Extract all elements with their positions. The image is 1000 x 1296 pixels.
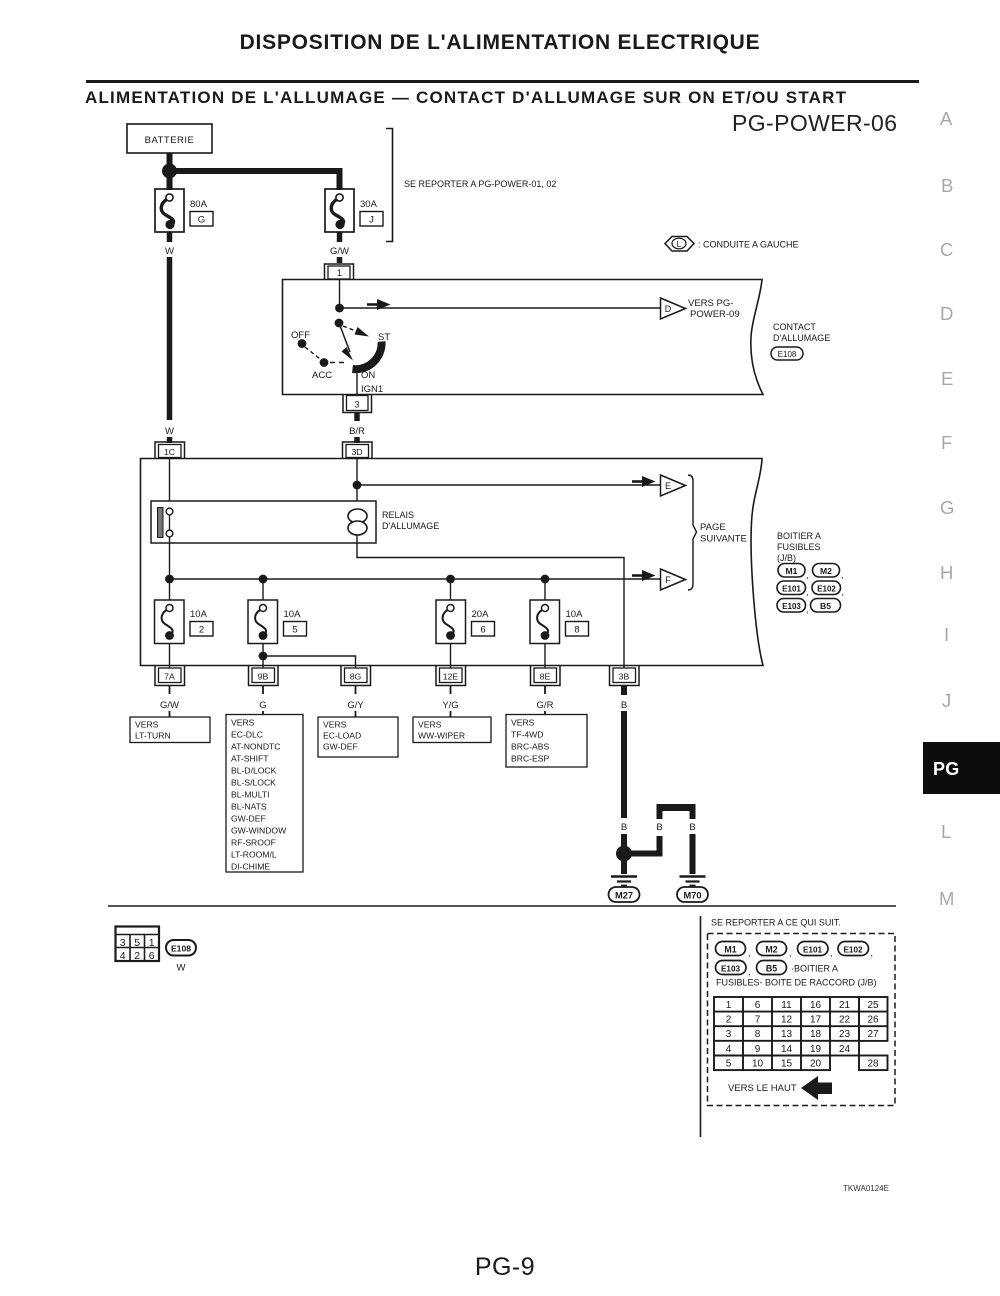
- svg-text:AT-NONDTC: AT-NONDTC: [231, 742, 281, 752]
- svg-text:EC-DLC: EC-DLC: [231, 730, 263, 740]
- wire W below 80A: [167, 232, 173, 242]
- figure code: [843, 1184, 889, 1193]
- label box VERS EC-LOAD GW-DEF: [318, 717, 398, 757]
- right panel divider: [700, 916, 702, 1137]
- page number: [5, 1253, 1000, 1282]
- wire W stub above 1C: [167, 437, 173, 443]
- wire G/W stub above pin 1: [337, 257, 343, 263]
- junction node bus at 1C: [165, 575, 174, 584]
- wire pin1 to junction: [339, 279, 341, 308]
- off-page triangle F: [661, 569, 686, 590]
- svg-text:DI-CHIME: DI-CHIME: [231, 862, 270, 872]
- page suivante bracket: [688, 475, 697, 590]
- svg-text:3B: 3B: [619, 672, 630, 682]
- svg-text:G/Y: G/Y: [347, 700, 364, 711]
- svg-text:8E: 8E: [540, 672, 551, 682]
- svg-text:TF-4WD: TF-4WD: [511, 730, 543, 740]
- svg-text:28: 28: [867, 1058, 879, 1069]
- margin index letters: [940, 108, 952, 130]
- wire B/R stub above 3D: [354, 437, 360, 443]
- wire B main run: [621, 711, 627, 818]
- ignition switch box E108: [283, 280, 764, 395]
- svg-text:E103: E103: [782, 602, 801, 611]
- svg-text:ON: ON: [361, 370, 375, 381]
- legend oval E102: [838, 942, 873, 959]
- connector ref oval E101: [777, 581, 809, 597]
- svg-text:,: ,: [806, 570, 809, 580]
- svg-text:10A: 10A: [190, 609, 208, 620]
- svg-text:6: 6: [480, 625, 485, 636]
- svg-text:M27: M27: [615, 891, 633, 901]
- svg-text:·BOITIER A: ·BOITIER A: [791, 964, 838, 974]
- svg-text:BL-MULTI: BL-MULTI: [231, 790, 270, 800]
- connector 3D: [343, 442, 373, 458]
- svg-text:M70: M70: [683, 891, 701, 901]
- wire junction to E triangle: [357, 484, 660, 486]
- svg-text:B: B: [689, 822, 695, 833]
- svg-text:BL-S/LOCK: BL-S/LOCK: [231, 778, 276, 788]
- connector ref oval M2: [813, 564, 844, 581]
- svg-text:5: 5: [726, 1058, 732, 1069]
- fusible link 30A: [325, 189, 354, 232]
- label box VERS WW-WIPER: [413, 717, 491, 743]
- wire stub 8G: [355, 686, 357, 695]
- svg-text:BATTERIE: BATTERIE: [145, 135, 195, 146]
- wire ON contact to pin 3: [356, 367, 358, 394]
- svg-text:13: 13: [781, 1029, 793, 1040]
- dashed legend box: [708, 934, 896, 1106]
- wire stub to VERS TF-4WD: [544, 711, 546, 715]
- junction node ignition feed: [335, 304, 344, 313]
- svg-text:14: 14: [781, 1044, 793, 1055]
- svg-text:LT-ROOM/L: LT-ROOM/L: [231, 850, 277, 860]
- direction arrow on D wire: [367, 303, 378, 306]
- svg-text:M2: M2: [820, 566, 832, 576]
- svg-text:: CONDUITE A GAUCHE: : CONDUITE A GAUCHE: [698, 240, 799, 250]
- svg-text:10A: 10A: [566, 609, 584, 620]
- junction node bus fuse 8: [541, 575, 550, 584]
- svg-text:L: L: [677, 239, 682, 249]
- footer separator line: [108, 905, 896, 907]
- svg-text:E103: E103: [721, 965, 741, 974]
- legend oval M1: [716, 942, 751, 959]
- svg-text:M1: M1: [724, 945, 736, 955]
- svg-text:D'ALLUMAGE: D'ALLUMAGE: [773, 333, 830, 343]
- svg-text:9B: 9B: [258, 672, 269, 682]
- svg-text:15: 15: [781, 1058, 793, 1069]
- svg-text:10: 10: [752, 1058, 764, 1069]
- svg-text:GW-WINDOW: GW-WINDOW: [231, 826, 287, 836]
- svg-text:RELAIS: RELAIS: [382, 510, 414, 520]
- svg-text:2: 2: [726, 1015, 732, 1026]
- wire stub to VERS WW-WIPER: [450, 711, 452, 717]
- junction node E branch: [353, 481, 362, 490]
- svg-text:8G: 8G: [350, 672, 362, 682]
- section subtitle: [85, 88, 847, 108]
- svg-text:6: 6: [149, 950, 155, 962]
- connector ref oval M1: [778, 564, 809, 581]
- svg-text:10A: 10A: [284, 609, 302, 620]
- wire stub to VERS EC-LOAD: [355, 711, 357, 717]
- svg-text:24: 24: [839, 1044, 851, 1055]
- svg-text:6: 6: [755, 1000, 761, 1011]
- svg-text:M1: M1: [786, 566, 798, 576]
- up-direction arrow: [801, 1076, 832, 1100]
- svg-text:AT-SHIFT: AT-SHIFT: [231, 754, 269, 764]
- svg-text:G: G: [259, 700, 266, 711]
- junction node bus fuse 6: [446, 575, 455, 584]
- svg-text:BL-NATS: BL-NATS: [231, 802, 267, 812]
- svg-text:E102: E102: [817, 585, 836, 594]
- svg-text:,: ,: [748, 967, 751, 977]
- ground ref oval M27: [609, 887, 640, 902]
- svg-text:,: ,: [748, 948, 751, 958]
- wire B stub below 3B: [621, 686, 627, 696]
- fuse number box 5: [284, 622, 307, 637]
- wire junction to ground M27: [621, 853, 627, 874]
- label box VERS EC-DLC list: [226, 715, 303, 873]
- svg-text:W: W: [165, 426, 174, 437]
- svg-text:CONTACT: CONTACT: [773, 322, 816, 332]
- svg-text:BL-D/LOCK: BL-D/LOCK: [231, 766, 277, 776]
- legend oval M2: [757, 942, 792, 959]
- wire G/W below 30A: [337, 232, 343, 242]
- svg-text:1: 1: [337, 268, 342, 278]
- label box VERS TF-4WD BRC-ABS BRC-ESP: [506, 715, 587, 768]
- svg-text:23: 23: [839, 1029, 851, 1040]
- svg-text:3: 3: [354, 400, 359, 410]
- connector pin 1 (ignition switch): [325, 264, 354, 279]
- legend symbol L hexagon: [665, 237, 694, 252]
- svg-text:SE REPORTER A CE QUI SUIT.: SE REPORTER A CE QUI SUIT.: [711, 918, 841, 928]
- legend oval B5: [757, 961, 787, 975]
- svg-text:,: ,: [806, 587, 809, 597]
- wire junction to M70 branch: [629, 836, 660, 854]
- ignition switch rotary contacts: [298, 319, 382, 370]
- fuse layout grid: [714, 997, 888, 1070]
- junction node battery positive: [162, 164, 177, 179]
- svg-text:ST: ST: [378, 332, 390, 343]
- wire stub to VERS LT-TURN: [169, 711, 171, 717]
- svg-text:20: 20: [810, 1058, 822, 1069]
- svg-text:J: J: [369, 215, 374, 226]
- svg-text:FUSIBLES- BOITE DE RACCORD (J/: FUSIBLES- BOITE DE RACCORD (J/B): [716, 978, 877, 988]
- svg-text:VERS LE HAUT: VERS LE HAUT: [728, 1083, 797, 1094]
- ground symbol M70: [680, 877, 706, 886]
- svg-text:1: 1: [726, 1000, 732, 1011]
- svg-text:8: 8: [755, 1029, 761, 1040]
- svg-text:1: 1: [149, 937, 155, 949]
- svg-text:1C: 1C: [164, 447, 175, 457]
- svg-text:3: 3: [726, 1029, 732, 1040]
- svg-text:7: 7: [755, 1015, 761, 1026]
- svg-text:D'ALLUMAGE: D'ALLUMAGE: [382, 521, 439, 531]
- relay d'allumage: [151, 501, 376, 543]
- svg-text:16: 16: [810, 1000, 822, 1011]
- fuse block box (J/B): [141, 459, 764, 666]
- svg-text:E108: E108: [171, 944, 191, 954]
- svg-text:G: G: [198, 215, 205, 226]
- svg-text:RF-SROOF: RF-SROOF: [231, 838, 276, 848]
- svg-text:80A: 80A: [190, 199, 208, 210]
- svg-text:EC-LOAD: EC-LOAD: [323, 731, 361, 741]
- wire bus to fuse 5: [262, 579, 264, 600]
- svg-text:22: 22: [839, 1015, 851, 1026]
- connector 9B: [249, 666, 279, 686]
- svg-text:2: 2: [134, 950, 140, 962]
- fuse number box 8: [566, 622, 589, 637]
- wire to VERS PG-POWER-09: [340, 307, 661, 309]
- svg-text:19: 19: [810, 1044, 822, 1055]
- wire stub 7A: [169, 686, 171, 695]
- svg-text:VERS: VERS: [231, 718, 255, 728]
- svg-text:G/W: G/W: [160, 700, 179, 711]
- svg-text:B: B: [656, 822, 662, 833]
- svg-text:D: D: [665, 304, 672, 314]
- svg-text:12E: 12E: [443, 672, 459, 682]
- wire junction to fusible link 80A: [167, 171, 173, 190]
- svg-text:OFF: OFF: [291, 330, 310, 341]
- svg-text:5: 5: [134, 937, 140, 949]
- fuse number box 6: [472, 622, 495, 637]
- wire junction down to relay coil: [356, 485, 358, 509]
- fuse 2 10A: [155, 600, 185, 644]
- wire 3D down to junction E: [356, 458, 358, 485]
- wire battery to junction: [167, 153, 173, 171]
- wire fuse5 to junction: [262, 643, 264, 668]
- svg-text:W: W: [177, 963, 186, 974]
- svg-text:BRC-ABS: BRC-ABS: [511, 742, 549, 752]
- connector ref oval B5: [811, 599, 841, 613]
- svg-text:20A: 20A: [472, 609, 490, 620]
- svg-text:ACC: ACC: [312, 370, 332, 381]
- svg-text:GW-DEF: GW-DEF: [323, 742, 358, 752]
- wire relay contact to bus: [169, 537, 171, 579]
- svg-text:VERS: VERS: [135, 720, 159, 730]
- wire branch upper right: [690, 805, 696, 820]
- wire stub 8E: [544, 686, 546, 695]
- fuse letter box J: [360, 212, 383, 227]
- wire bus to fuse 6: [450, 579, 452, 600]
- svg-text:SE REPORTER A PG-POWER-01, 02: SE REPORTER A PG-POWER-01, 02: [404, 179, 556, 189]
- page code PG-POWER-06: [732, 110, 897, 137]
- wire branch down to ground M70: [690, 834, 696, 874]
- fuse 6 20A: [436, 600, 466, 644]
- svg-text:2: 2: [199, 625, 204, 636]
- page title: [0, 31, 1000, 55]
- direction arrow on F wire: [632, 574, 643, 577]
- wire stub 12E: [450, 686, 452, 695]
- fuse 8 10A: [530, 600, 560, 644]
- svg-text:B5: B5: [820, 601, 831, 611]
- fuse 5 10A: [248, 600, 278, 644]
- svg-text:7A: 7A: [164, 672, 175, 682]
- svg-text:GW-DEF: GW-DEF: [231, 814, 266, 824]
- wire branch top bar: [657, 804, 696, 811]
- svg-text:B: B: [621, 822, 627, 833]
- svg-text:E: E: [665, 481, 671, 491]
- svg-text:,: ,: [841, 570, 844, 580]
- off-page triangle E: [661, 475, 686, 496]
- svg-text:B: B: [621, 700, 627, 711]
- legend oval E101: [798, 942, 833, 959]
- svg-text:(J/B): (J/B): [777, 553, 796, 563]
- svg-text:,: ,: [871, 948, 874, 958]
- wire junction to 8G: [263, 656, 356, 668]
- battery B1: [127, 124, 212, 153]
- PG tab: [923, 742, 1000, 794]
- wire junction to fusible link 30A (horizontal + drop): [171, 171, 340, 190]
- svg-text:BRC-ESP: BRC-ESP: [511, 754, 549, 764]
- svg-text:8: 8: [574, 625, 579, 636]
- wire bus to fuse 2: [169, 579, 171, 600]
- junction node bus fuse 5: [259, 575, 268, 584]
- wire bus to fuse 8: [544, 579, 546, 600]
- wire B/R below pin 3: [354, 413, 360, 421]
- header rule: [86, 80, 919, 83]
- svg-text:17: 17: [810, 1015, 822, 1026]
- svg-text:G/W: G/W: [330, 246, 349, 257]
- junction node ground splice: [616, 846, 632, 862]
- svg-text:,: ,: [806, 605, 809, 615]
- svg-text:FUSIBLES: FUSIBLES: [777, 542, 821, 552]
- svg-text:27: 27: [867, 1029, 879, 1040]
- svg-text:25: 25: [867, 1000, 879, 1011]
- reference bracket PG-POWER-01,02: [386, 129, 393, 242]
- svg-text:VERS: VERS: [511, 718, 535, 728]
- svg-text:BOITIER A: BOITIER A: [777, 531, 821, 541]
- svg-text:3: 3: [120, 937, 126, 949]
- svg-text:LT-TURN: LT-TURN: [135, 731, 171, 741]
- wire fuse6 to 12E: [450, 643, 452, 668]
- svg-text:F: F: [665, 575, 671, 585]
- svg-text:,: ,: [830, 948, 833, 958]
- legend oval E103: [716, 961, 751, 978]
- connector 1C: [155, 442, 185, 458]
- connector face E108 pin grid: [116, 927, 160, 963]
- svg-text:PAGE: PAGE: [700, 522, 726, 533]
- svg-text:IGN1: IGN1: [361, 384, 383, 395]
- wire stub 9B: [262, 686, 264, 695]
- svg-text:21: 21: [839, 1000, 851, 1011]
- svg-text:E101: E101: [782, 585, 801, 594]
- svg-text:M2: M2: [765, 945, 777, 955]
- svg-text:4: 4: [120, 950, 126, 962]
- ground ref oval M70: [677, 887, 708, 902]
- svg-text:11: 11: [781, 1000, 792, 1011]
- junction node fuse5 split: [259, 652, 268, 661]
- connector ref oval E108 (footer): [166, 940, 196, 956]
- connector 12E: [436, 666, 466, 686]
- bus wire to fuses and F: [170, 578, 661, 580]
- fuse grid numbers: [726, 1000, 879, 1069]
- wire fuse8 to 8E: [544, 643, 546, 668]
- svg-text:E102: E102: [843, 946, 863, 955]
- svg-text:W: W: [165, 246, 174, 257]
- connector 8E: [531, 666, 561, 686]
- svg-text:Y/G: Y/G: [442, 700, 458, 711]
- wire relay coil output: [357, 535, 624, 668]
- fuse number box 2: [190, 622, 213, 637]
- svg-text:VERS: VERS: [323, 720, 347, 730]
- svg-text:5: 5: [292, 625, 297, 636]
- svg-text:B5: B5: [766, 964, 777, 974]
- svg-text:VERS: VERS: [418, 720, 442, 730]
- svg-text:18: 18: [810, 1029, 822, 1040]
- svg-text:SUIVANTE: SUIVANTE: [700, 534, 747, 545]
- svg-text:WW-WIPER: WW-WIPER: [418, 731, 465, 741]
- label box VERS LT-TURN: [130, 717, 210, 743]
- connector ref oval E103: [777, 599, 809, 615]
- svg-text:VERS PG-: VERS PG-: [688, 298, 733, 309]
- fuse letter box G: [190, 212, 213, 227]
- wire B to ground junction: [621, 834, 627, 847]
- svg-text:4: 4: [726, 1044, 732, 1055]
- connector 3B: [610, 666, 640, 686]
- svg-text:E108: E108: [778, 350, 797, 359]
- ground symbol M27: [611, 877, 637, 886]
- wire 1C to relay contact: [169, 458, 171, 509]
- svg-text:9: 9: [755, 1044, 761, 1055]
- connector ref oval E102: [812, 581, 844, 597]
- wire W down to 1C: [167, 257, 173, 420]
- off-page triangle D: [661, 298, 686, 319]
- svg-text:POWER-09: POWER-09: [690, 309, 740, 320]
- svg-text:30A: 30A: [360, 199, 378, 210]
- connector 8G: [341, 666, 371, 686]
- svg-text:26: 26: [867, 1015, 879, 1026]
- svg-text:E101: E101: [803, 946, 823, 955]
- connector 7A: [155, 666, 185, 686]
- svg-text:B/R: B/R: [349, 426, 365, 437]
- connector ref oval E108: [771, 347, 803, 360]
- svg-text:G/R: G/R: [537, 700, 554, 711]
- svg-text:3D: 3D: [351, 447, 362, 457]
- fusible link 80A: [155, 189, 184, 232]
- direction arrow on E wire: [632, 480, 643, 483]
- svg-text:,: ,: [789, 948, 792, 958]
- wire stub to VERS EC-DLC: [262, 711, 264, 715]
- wire fuse2 to 7A: [169, 643, 171, 668]
- connector pin 3 (ignition switch): [343, 395, 372, 413]
- svg-text:,: ,: [842, 587, 845, 597]
- svg-text:12: 12: [781, 1015, 793, 1026]
- wire branch upper left: [657, 805, 663, 820]
